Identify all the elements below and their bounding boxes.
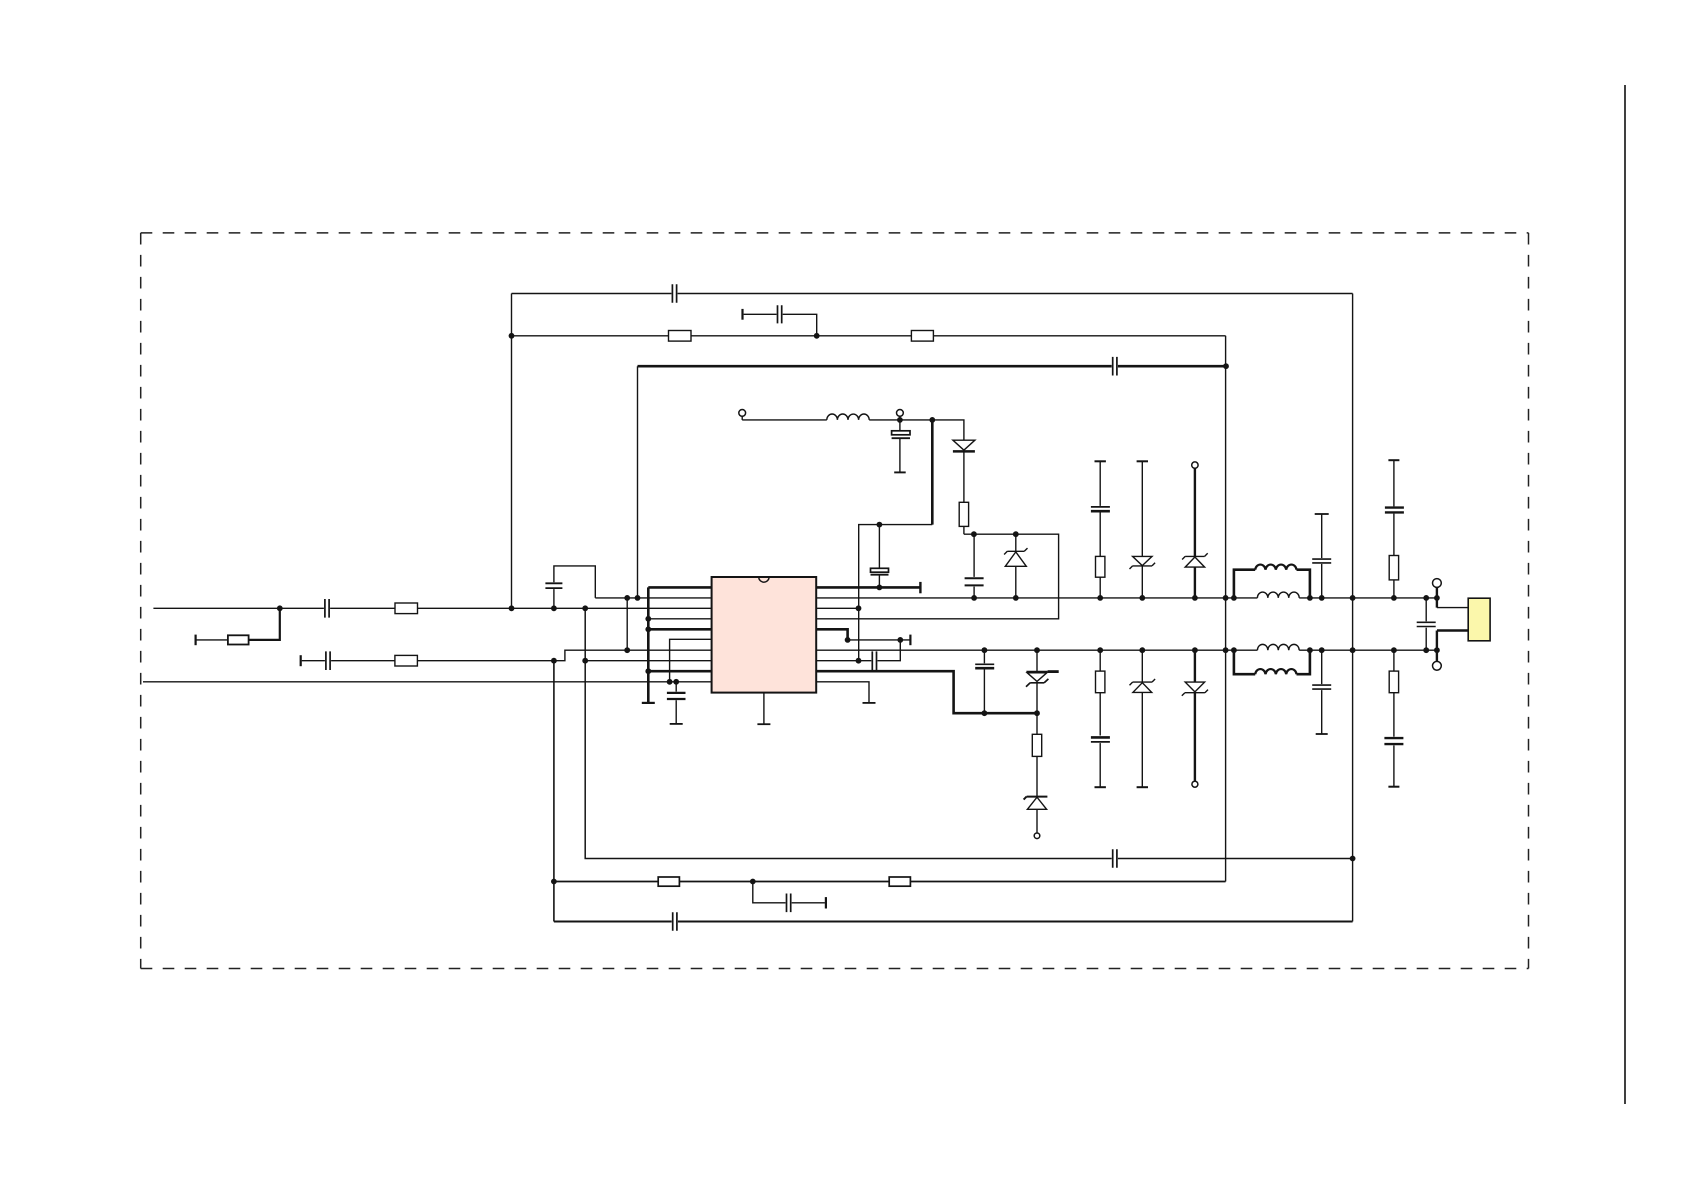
junction: [982, 710, 988, 716]
junction: [1307, 595, 1313, 601]
wire top feedback run: [512, 293, 1353, 295]
wire pin11 row ground stub: [816, 682, 875, 703]
wire input row A: [153, 607, 711, 609]
junction: [1223, 595, 1229, 601]
capacitor C19 coupling to pin2: [545, 566, 595, 608]
inductor L5 thick loop: [1234, 650, 1310, 674]
junction: [1013, 595, 1019, 601]
junction: [814, 333, 820, 339]
capacitor C17: [673, 912, 677, 931]
resistor R7 column: [1096, 650, 1105, 735]
junction: [897, 417, 903, 423]
IC U1: [712, 577, 817, 693]
resistor R11: [395, 603, 418, 614]
junction: [635, 595, 641, 601]
capacitor C5 polarized: [871, 525, 889, 588]
wire supply run with inductor: [742, 420, 964, 440]
junction: [1034, 647, 1040, 653]
junction: [1423, 647, 1429, 653]
junction: [624, 595, 630, 601]
wire pin2 row: [595, 597, 711, 599]
wire mid link run: [859, 525, 933, 661]
junction: [509, 333, 515, 339]
junction: [1139, 595, 1145, 601]
junction: [1223, 647, 1229, 653]
junction: [1319, 647, 1325, 653]
resistor R3: [959, 502, 968, 534]
terminal J2 bottom output: [1433, 631, 1469, 671]
wire pin8 row: [585, 660, 711, 662]
zener diode Z6 column: [1182, 650, 1208, 781]
capacitor C13 column: [1312, 650, 1331, 734]
terminal TP1: [739, 410, 746, 420]
zener diode Z4: [1026, 650, 1059, 713]
wire thick shield top run: [638, 365, 1227, 368]
junction: [1434, 647, 1440, 653]
wire pin13 row with capacitor C21: [816, 640, 900, 670]
antenna module A1: [1468, 598, 1490, 641]
wire pin4 row: [648, 618, 711, 620]
junction: [582, 605, 588, 611]
junction: [277, 605, 283, 611]
wire pin6 row: [670, 639, 712, 682]
junction: [750, 879, 756, 885]
junction: [582, 658, 588, 664]
wire right vertical of second run: [1225, 336, 1227, 882]
wire VCC rail top: [816, 597, 1437, 599]
wire pin5 row thick: [648, 628, 711, 631]
junction: [1307, 647, 1313, 653]
zener diode Z1: [1004, 534, 1027, 598]
capacitor C6: [965, 534, 984, 598]
wire ground bus rail: [143, 681, 712, 683]
zener diode Z2 column: [1130, 461, 1156, 598]
wire link row with end bar: [848, 635, 911, 646]
junction: [673, 679, 679, 685]
junction: [971, 531, 977, 537]
wire lower outer run: [554, 920, 1353, 922]
junction: [1391, 595, 1397, 601]
diode D1: [953, 440, 975, 502]
wire outer right vertical: [1352, 294, 1354, 922]
junction: [1097, 595, 1103, 601]
junction: [1434, 595, 1440, 601]
terminal J1 top output: [1433, 579, 1469, 608]
junction: [624, 647, 630, 653]
junction: [1350, 595, 1356, 601]
wire thick branch vertical: [931, 420, 934, 525]
capacitor C18: [325, 599, 329, 618]
diode D2: [1024, 797, 1048, 833]
capacitor C1: [672, 284, 676, 303]
wire second feedback run: [512, 335, 1226, 337]
wire lower middle run: [554, 881, 1226, 883]
capacitor C20 ground stub: [667, 682, 686, 724]
junction: [1223, 363, 1229, 369]
junction: [1013, 531, 1019, 537]
junction: [1231, 647, 1237, 653]
inductor L4: [1257, 644, 1299, 650]
wire left vertical from top run: [511, 294, 513, 609]
junction: [1231, 595, 1237, 601]
junction: [1139, 647, 1145, 653]
resistor R1: [669, 331, 692, 342]
junction: [667, 679, 673, 685]
capacitor C12 polarized: [1091, 737, 1110, 787]
capacitor C8 column: [1312, 514, 1331, 598]
junction: [551, 605, 557, 611]
resistor R9: [658, 877, 679, 886]
wire VDD rail bottom: [816, 649, 1437, 651]
junction: [1034, 710, 1040, 716]
capacitor C4 polarized: [892, 420, 910, 473]
junction: [877, 585, 883, 591]
junction: [645, 668, 651, 674]
inductor L3 thick loop: [1234, 565, 1310, 598]
wire input row B: [301, 650, 712, 670]
junction: [1192, 647, 1198, 653]
junction: [1319, 595, 1325, 601]
zener diode Z5 column: [1130, 650, 1156, 787]
capacitor C10 between rails: [1417, 598, 1436, 650]
terminal stub with capacitor C16: [753, 882, 826, 913]
wire pin2 to pin7 vertical: [626, 598, 628, 650]
resistor R4: [1096, 556, 1105, 598]
junction: [1350, 647, 1356, 653]
capacitor C7 column: [1091, 461, 1110, 556]
wire pin16 row thick step: [816, 629, 847, 640]
junction: [1192, 595, 1198, 601]
wire shield left vertical: [637, 366, 639, 598]
wire pin1 row thick: [648, 586, 711, 589]
junction: [971, 595, 977, 601]
resistor R12 shunt stub: [196, 608, 280, 645]
junction: [856, 605, 862, 611]
capacitor C11 polarized: [975, 650, 994, 713]
dashed enclosure border: [141, 233, 1529, 969]
resistor R10: [889, 877, 910, 886]
junction: [645, 626, 651, 632]
wire pin20 row thick with end bar: [816, 582, 920, 593]
capacitor C9 and resistor R5 column: [1385, 460, 1404, 598]
resistor R2: [911, 331, 933, 342]
junction: [929, 417, 935, 423]
wire lower feedback run: [585, 608, 1352, 858]
capacitor C15: [1113, 849, 1117, 868]
wire pin18 row: [816, 607, 858, 609]
page margin rule: [1624, 85, 1626, 1104]
junction: [551, 658, 557, 664]
terminal TP4: [1192, 781, 1198, 787]
inductor L1: [827, 414, 869, 420]
junction: [1391, 647, 1397, 653]
resistor R8 and capacitor C14 column: [1384, 650, 1403, 787]
terminal TP3: [1034, 833, 1040, 839]
capacitor C3: [1113, 357, 1117, 376]
wire pin9 row thick: [648, 670, 711, 673]
junction: [1350, 856, 1356, 862]
wire thick pin9 ground run: [816, 671, 1037, 713]
wire thick ground rail left of IC: [642, 587, 655, 703]
junction: [982, 647, 988, 653]
resistor R6: [1032, 713, 1041, 796]
junction: [877, 522, 883, 528]
ground stub of U1: [757, 693, 770, 725]
junction: [897, 637, 903, 643]
junction: [645, 616, 651, 622]
junction: [1097, 647, 1103, 653]
junction: [856, 658, 862, 664]
junction: [551, 879, 557, 885]
inductor L2: [1257, 592, 1299, 598]
wire regulator run: [816, 534, 1058, 619]
zener diode Z3 column: [1182, 462, 1208, 598]
terminal TP2: [897, 410, 904, 420]
wire thick left vertical lower: [553, 661, 555, 922]
junction: [509, 605, 515, 611]
terminal stub with capacitor C2: [743, 305, 817, 336]
junction: [1423, 595, 1429, 601]
junction: [845, 637, 851, 643]
